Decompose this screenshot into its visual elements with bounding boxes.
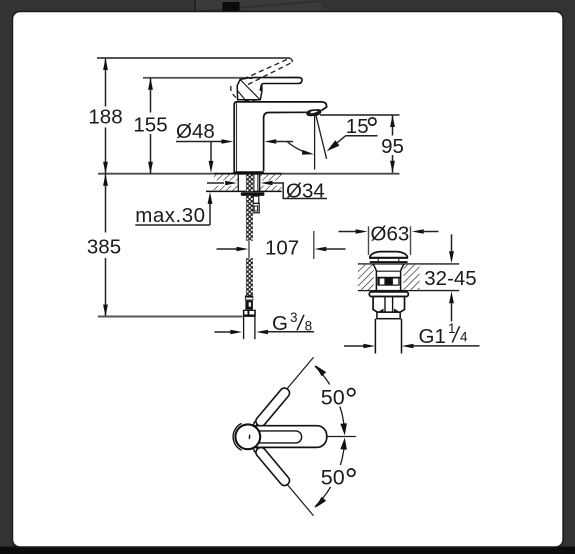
drain flange bar (369, 292, 408, 297)
mounting stud and nut (253, 196, 259, 213)
svg-text:Ø63: Ø63 (371, 223, 410, 246)
svg-text:107: 107 (265, 237, 299, 260)
dim Ø34 leaders (207, 180, 327, 203)
handle lever (252, 77, 303, 91)
max.30 leader corridor (214, 181, 239, 186)
svg-text:max.30: max.30 (135, 204, 205, 227)
shank hole edges (237, 174, 239, 191)
faucet body outline (234, 102, 326, 171)
svg-text:385: 385 (87, 236, 121, 259)
water stream 15 deg line (316, 115, 327, 159)
svg-text:15: 15 (346, 115, 369, 138)
drain deck bottom line (358, 290, 459, 292)
spout outlet aerator (307, 110, 321, 116)
upper rotated lever (252, 386, 292, 431)
drain body band (377, 312, 400, 319)
braided hose lower segment (246, 258, 253, 295)
dim 95 (320, 115, 404, 173)
svg-text:95: 95 (381, 135, 404, 158)
dim 155 (133, 78, 167, 174)
drain body neck (373, 264, 404, 291)
svg-text:50: 50 (321, 385, 345, 409)
extension line top (188) (97, 57, 290, 59)
G3/8 nipple tube (244, 317, 255, 339)
angle arc (288, 142, 314, 155)
horizontal ray (320, 436, 356, 438)
hose hex (245, 300, 253, 309)
svg-text:Ø34: Ø34 (286, 180, 325, 203)
ray 50 up (256, 357, 314, 426)
pivot outer arc (233, 423, 242, 450)
pivot circle (235, 424, 260, 449)
svg-text:3: 3 (290, 310, 298, 325)
svg-text:Ø48: Ø48 (176, 120, 215, 143)
deck surface long line (98, 173, 400, 175)
svg-text:188: 188 (88, 106, 122, 129)
svg-text:G: G (272, 312, 288, 335)
top cropped-photo artifacts (195, 0, 322, 12)
svg-text:50: 50 (321, 466, 345, 490)
braided hose in shank (246, 175, 253, 192)
dim Ø63 (339, 223, 439, 255)
mounting washer (241, 192, 265, 196)
deck hatch left of shank (214, 175, 239, 192)
supply pipe in shank (254, 175, 258, 192)
svg-text:G1: G1 (419, 325, 446, 348)
svg-text:155: 155 (133, 113, 167, 136)
drain deck hatch (358, 265, 374, 290)
water stream vertical reference (314, 116, 316, 169)
svg-text:32-45: 32-45 (424, 267, 476, 290)
lower rotated lever (252, 443, 292, 488)
dim 15 deg (327, 115, 378, 151)
lever outer body (246, 426, 327, 448)
hose break centerline (248, 241, 250, 259)
svg-text:1: 1 (448, 321, 456, 336)
dim 32-45 (424, 234, 476, 321)
dim G1 1/4 (344, 321, 480, 348)
swivel arc lower (315, 438, 347, 508)
lever inner blade (249, 431, 302, 443)
drain deck top line (358, 263, 459, 265)
dim max.30 (135, 192, 212, 227)
drain overflow window (377, 278, 399, 286)
hose nut (243, 310, 256, 317)
label 50 deg lower (319, 465, 358, 487)
svg-text:4: 4 (460, 330, 468, 345)
label 50 deg upper (319, 385, 358, 407)
braided hose upper segment (246, 196, 253, 241)
svg-text:8: 8 (305, 319, 313, 334)
pivot center mark (249, 434, 251, 439)
swivel arc upper (315, 365, 347, 435)
drain locknut (373, 297, 404, 313)
dim Ø48 (176, 120, 293, 173)
dim G3/8 (215, 310, 315, 335)
drain tailpipe (375, 319, 401, 354)
dim 385 (87, 174, 121, 317)
raised handle dashed (231, 58, 293, 101)
bottom black bar (0, 547, 575, 554)
deck top edge emphasis (214, 173, 282, 175)
deck bottom line (206, 190, 282, 192)
hose ferrule (245, 296, 253, 301)
ray 50 down (256, 447, 314, 516)
base plate (233, 171, 264, 174)
dim 188 (88, 58, 122, 174)
extension line 155 (143, 77, 252, 79)
dim 107 (217, 231, 346, 260)
385 bottom extension line (98, 316, 243, 318)
handle dome (237, 78, 262, 100)
deck hatch right of shank (260, 175, 282, 192)
drain cap dome (369, 252, 408, 263)
